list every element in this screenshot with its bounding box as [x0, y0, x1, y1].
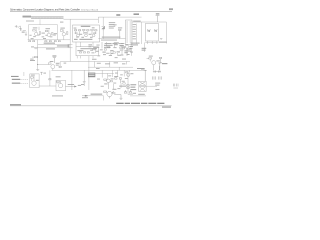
- pin labels right of J2: [133, 24, 136, 39]
- vertical wire x89: [88, 62, 90, 91]
- strip drop tick: [39, 19, 41, 24]
- bus y61.5: [60, 61, 130, 63]
- strip pin ticks: [33, 17, 60, 19]
- IC U1 internal parts: [74, 29, 97, 37]
- IC U1 title: [81, 26, 91, 27]
- footer page number: [162, 106, 171, 107]
- transistor Q9: [104, 79, 110, 89]
- final band specks: [90, 50, 131, 56]
- figure caption: [116, 103, 164, 104]
- relay K1 box: [145, 24, 158, 42]
- wire down to caption: [103, 96, 105, 101]
- svg-text:Schematics, Component Location: Schematics, Component Location Diagrams,…: [10, 7, 80, 11]
- cap C8 on x84: [83, 70, 86, 86]
- transistor Q5: [48, 63, 55, 70]
- bottom wire right: [130, 95, 146, 97]
- connector J2 box: [126, 20, 133, 45]
- footer rule: [10, 105, 172, 107]
- supply tick T4: [40, 72, 43, 75]
- wire from strip to box A: [64, 18, 99, 20]
- bus row2: [38, 43, 73, 45]
- drop wires: [102, 31, 104, 39]
- connector J1 label: [23, 16, 32, 18]
- transistor Q8: [57, 81, 77, 88]
- header title text: [10, 7, 99, 11]
- left input cluster: [15, 25, 27, 35]
- right vertical: [127, 72, 129, 94]
- vertical from bus: [49, 70, 51, 86]
- svg-text:Interface Board: Interface Board: [81, 8, 99, 11]
- node label above bus A: [116, 13, 139, 15]
- crystal Y1: [173, 84, 178, 88]
- vertical wire x72: [71, 70, 73, 90]
- IC U2 parts: [79, 52, 89, 53]
- transistor Q6: [147, 58, 156, 71]
- wire vertical w2: [135, 24, 137, 44]
- wire top bus A: [98, 17, 141, 23]
- bus row3: [38, 47, 73, 49]
- parts row below bus row1: [54, 41, 60, 42]
- supply tick T2: [53, 58, 56, 63]
- top tick bottom right: [144, 70, 147, 81]
- ground G2: [36, 69, 39, 72]
- IC U2 text: [77, 48, 97, 51]
- wires right of FL1: [146, 85, 157, 87]
- IC U2 box: [76, 47, 99, 56]
- legs below U1: [76, 42, 93, 47]
- IC U2 legs: [76, 56, 78, 59]
- resistor R7: [32, 56, 37, 57]
- resistor R5 cluster: [119, 29, 121, 38]
- transistor Q10: [126, 72, 130, 77]
- connector J2 pins: [126, 22, 131, 42]
- bus y67: [88, 66, 133, 68]
- input wire bottom left: [88, 95, 104, 97]
- transistor Q11 big: [104, 91, 117, 98]
- header rule: [10, 11, 172, 13]
- resistor R12: [159, 57, 161, 62]
- transistor Q2: [33, 27, 41, 36]
- bus label: [137, 68, 145, 69]
- extra parts bottom mid: [97, 73, 128, 90]
- diode cluster D4: [115, 78, 122, 83]
- pin text above bus: [102, 37, 121, 38]
- transistor Q3: [45, 30, 53, 37]
- labels left of FL1: [130, 84, 136, 90]
- wire drop to diode D1: [102, 17, 104, 26]
- bus area labels: [92, 59, 126, 69]
- cap pair CP2: [152, 76, 161, 79]
- IC U1 pin label row: [74, 39, 92, 40]
- wires from shield: [95, 72, 114, 74]
- wire vertical right: [165, 22, 167, 44]
- off page arrow: [82, 95, 88, 96]
- resistor R20: [127, 85, 129, 89]
- connector strip J1: [31, 16, 64, 19]
- label beside: [68, 45, 70, 48]
- resistor R9: [59, 62, 61, 68]
- main bus y70: [52, 69, 147, 71]
- Q11 surroundings: [111, 93, 115, 94]
- ground G1: [160, 37, 162, 40]
- transistor Q7: [30, 76, 56, 86]
- wire vert: [144, 43, 146, 53]
- notes text right of U1: [109, 22, 117, 28]
- node dot: [37, 64, 38, 65]
- parts row inside box C: [29, 35, 55, 40]
- resistor R15: [49, 79, 51, 80]
- extra parts middle band: [91, 43, 133, 58]
- IC U1 extra parts: [74, 27, 97, 37]
- right +5V wire: [145, 42, 158, 44]
- bus row1: [28, 39, 71, 41]
- transistor Q4: [60, 29, 68, 39]
- label above wires: [133, 21, 141, 22]
- wire vertical w1: [140, 22, 142, 44]
- wire to Q5: [38, 64, 49, 66]
- extra band density: [101, 40, 140, 50]
- verticals bottom mid: [101, 70, 103, 77]
- wire bus B: [132, 21, 166, 23]
- cap pair CP1: [153, 66, 161, 73]
- parts under bus row1: [29, 41, 52, 42]
- left vertical feed: [37, 40, 39, 70]
- ground G5: [117, 95, 122, 100]
- footer left doc number: [10, 104, 21, 105]
- pin number row under strip: [26, 20, 34, 21]
- section box C outline: [29, 25, 58, 40]
- io wires: [20, 79, 28, 81]
- relay K1 contacts: [147, 29, 157, 32]
- bus labels: [44, 43, 70, 50]
- optoisolator U4 box: [56, 80, 66, 91]
- middle dense band parts: [88, 42, 133, 53]
- left io labels: [11, 76, 20, 84]
- supply tick T3: [158, 63, 161, 70]
- capacitor C2: [34, 48, 38, 49]
- bus under notes: [98, 38, 125, 40]
- shield block dark: [88, 73, 95, 78]
- supply tick T1: [156, 16, 160, 22]
- optoisolator U3 box: [30, 74, 39, 88]
- diode D1: [102, 26, 105, 31]
- relay legs: [147, 41, 149, 44]
- IC U1 box: [73, 25, 100, 42]
- filter FL1 box: [139, 81, 146, 91]
- wire vertical left long: [69, 19, 71, 61]
- header page number: [169, 8, 173, 10]
